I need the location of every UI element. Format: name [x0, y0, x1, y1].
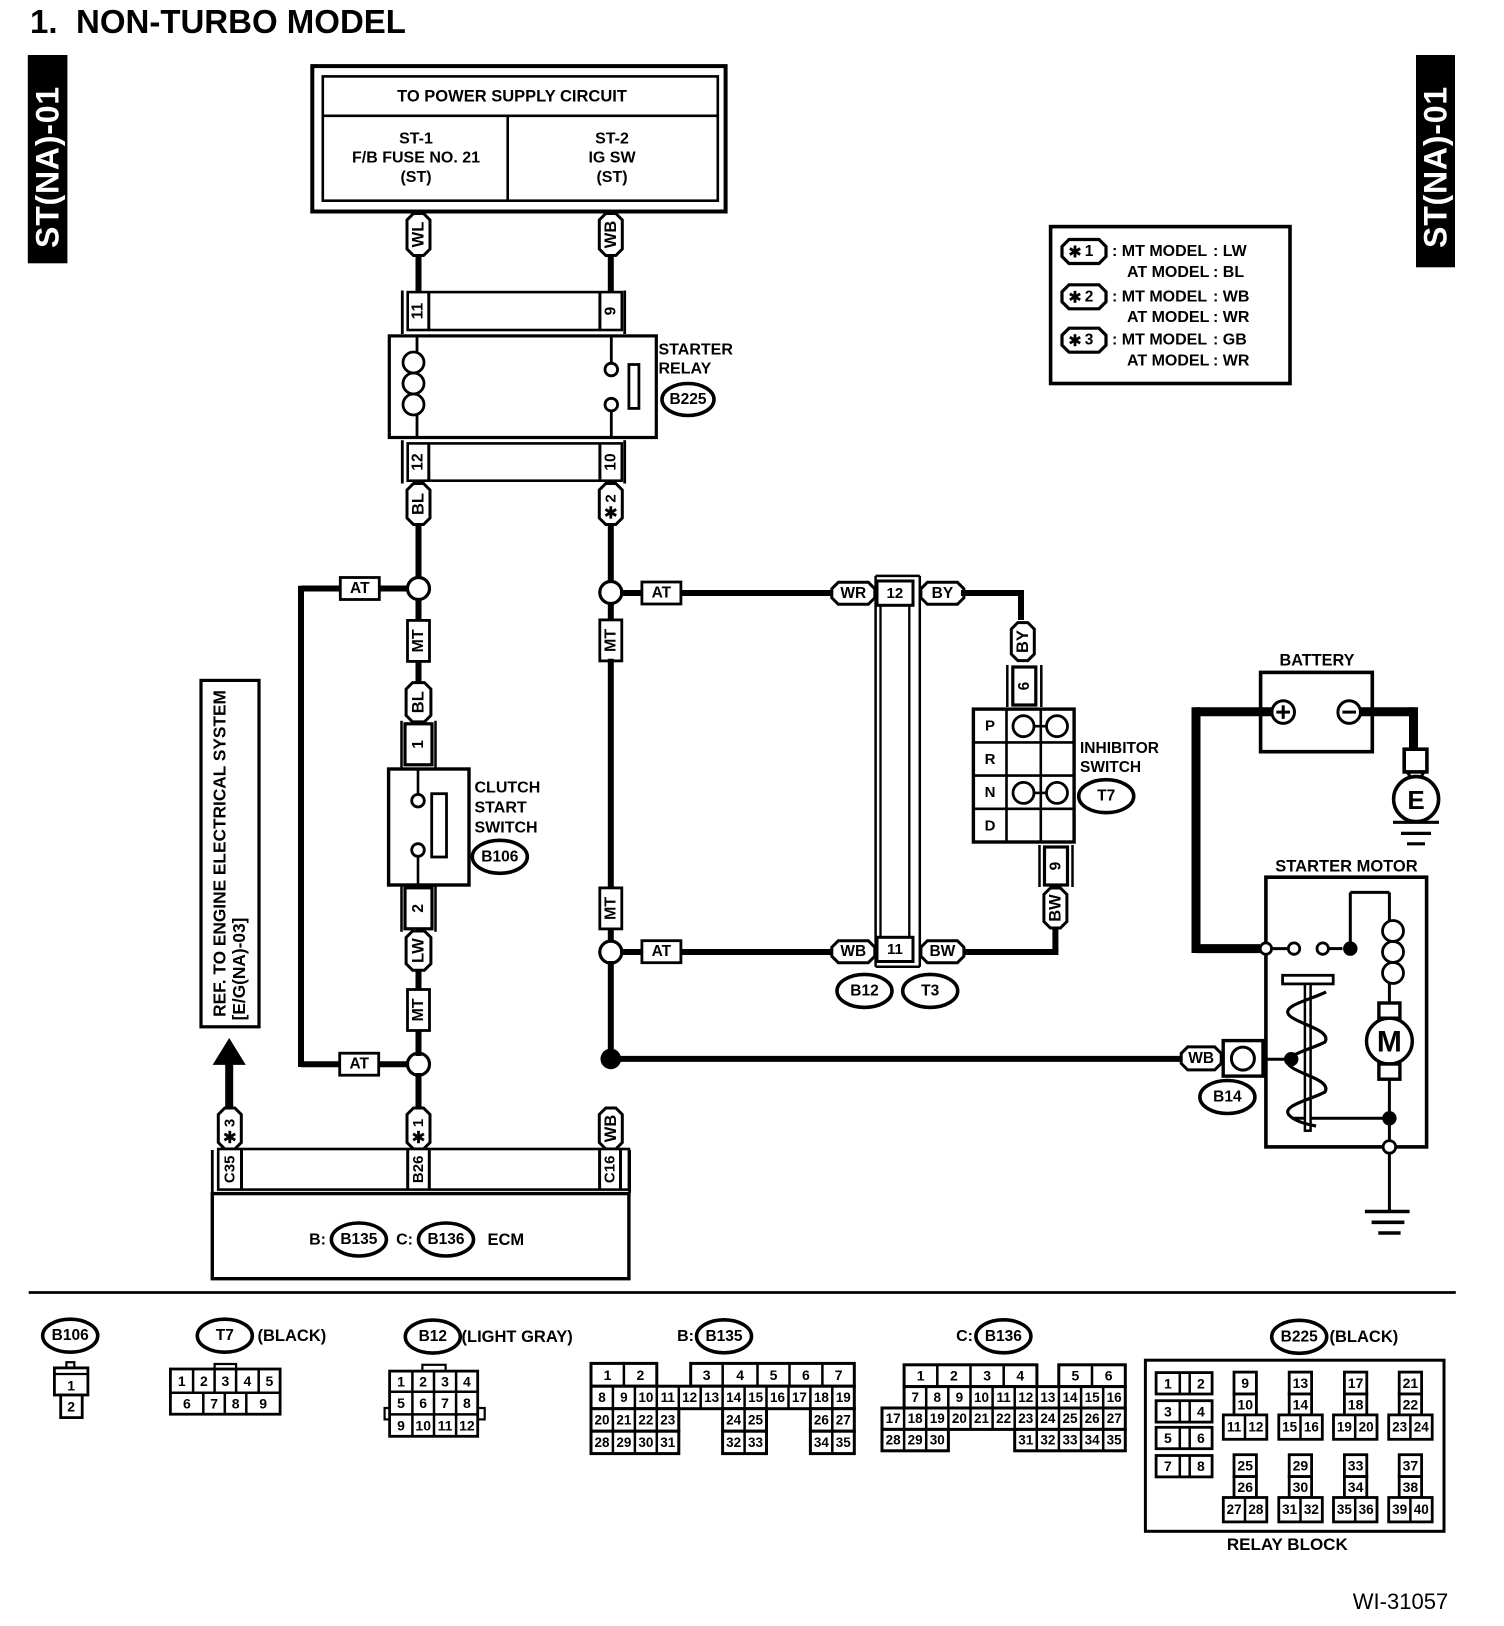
svg-text:TO POWER SUPPLY CIRCUIT: TO POWER SUPPLY CIRCUIT	[397, 88, 627, 106]
svg-text:7: 7	[1164, 1458, 1172, 1474]
svg-text:2: 2	[637, 1367, 645, 1383]
svg-text:11: 11	[438, 1417, 453, 1433]
svg-text:11: 11	[996, 1390, 1011, 1405]
svg-text:31: 31	[1018, 1433, 1034, 1448]
svg-text:18: 18	[814, 1390, 830, 1405]
svg-text:1: 1	[410, 1119, 427, 1127]
svg-text:AT: AT	[652, 585, 672, 602]
svg-text:8: 8	[1197, 1458, 1205, 1474]
wire junction B down	[608, 602, 614, 624]
svg-text:7: 7	[210, 1396, 218, 1412]
svg-text:34: 34	[1085, 1433, 1101, 1448]
svg-text:12: 12	[682, 1390, 697, 1405]
starter relay B225 box	[389, 336, 656, 438]
svg-text:5: 5	[397, 1395, 405, 1411]
section divider line	[29, 1291, 1456, 1294]
svg-text:7: 7	[441, 1395, 449, 1411]
svg-text:AT MODEL: AT MODEL	[1127, 264, 1210, 281]
svg-text:14: 14	[726, 1390, 742, 1405]
svg-text:: WR: : WR	[1213, 309, 1250, 326]
svg-text:26: 26	[814, 1413, 830, 1428]
case ground node (open)	[1383, 1141, 1396, 1154]
tag AT center-bottom	[642, 941, 681, 963]
svg-text:25: 25	[748, 1413, 764, 1428]
connector oval B225	[662, 384, 714, 416]
svg-text:32: 32	[1304, 1502, 1319, 1517]
svg-text:B136: B136	[427, 1231, 464, 1248]
inhibitor switch T7 box	[973, 709, 1074, 842]
svg-text:9: 9	[603, 306, 620, 315]
svg-text:SWITCH: SWITCH	[1080, 759, 1141, 776]
svg-text:N: N	[985, 784, 996, 801]
wire MT to junction D	[416, 1030, 422, 1056]
wire junction D to *1	[416, 1073, 422, 1110]
svg-text:B14: B14	[1213, 1089, 1242, 1106]
svg-text:8: 8	[934, 1390, 942, 1405]
svg-text:29: 29	[908, 1433, 923, 1448]
svg-text:AT: AT	[349, 1056, 369, 1073]
svg-text:WI-31057: WI-31057	[1353, 1589, 1448, 1614]
svg-text:[E/G(NA)-03]: [E/G(NA)-03]	[229, 918, 249, 1021]
svg-text:10: 10	[603, 453, 620, 470]
svg-text:2: 2	[67, 1399, 75, 1415]
label RELAY BLOCK	[1227, 1535, 1349, 1554]
svg-text:B:: B:	[677, 1328, 694, 1345]
svg-text:9: 9	[956, 1390, 964, 1405]
connector oval B225 (view)	[1272, 1320, 1327, 1353]
wire tag WL	[407, 214, 430, 256]
wire node E to WB tag	[608, 1110, 614, 1149]
svg-text:27: 27	[1107, 1411, 1122, 1426]
svg-text:2: 2	[1197, 1375, 1205, 1391]
battery + terminal	[1272, 701, 1295, 724]
svg-text:: LW: : LW	[1213, 243, 1248, 260]
wire junction A down	[416, 598, 422, 622]
wire tag BY (vertical)	[1011, 623, 1034, 661]
svg-text:17: 17	[792, 1390, 807, 1405]
plunger spring	[1288, 992, 1326, 1126]
svg-text:9: 9	[259, 1396, 267, 1412]
svg-text:13: 13	[1293, 1375, 1309, 1391]
connector oval B106 (view)	[43, 1319, 98, 1352]
svg-text:ST(NA)-01: ST(NA)-01	[1418, 86, 1454, 248]
svg-text:39: 39	[1392, 1502, 1407, 1517]
connector oval T3	[903, 974, 958, 1007]
svg-text:20: 20	[1359, 1420, 1374, 1435]
field coil	[1383, 921, 1404, 1004]
svg-text:15: 15	[1085, 1390, 1101, 1405]
svg-text:4: 4	[1016, 1368, 1024, 1384]
wire junction C to WB tag	[620, 949, 833, 955]
svg-text:(BLACK): (BLACK)	[258, 1327, 327, 1345]
connector oval B12 (view)	[405, 1320, 460, 1353]
svg-text:1: 1	[178, 1373, 186, 1389]
connector view B136 grid	[882, 1365, 1125, 1451]
svg-text:25: 25	[1237, 1458, 1253, 1474]
svg-text:WB: WB	[602, 221, 620, 249]
tag MT left upper	[408, 620, 430, 661]
svg-text:37: 37	[1403, 1458, 1419, 1474]
svg-text:30: 30	[638, 1435, 653, 1450]
svg-text:STARTER: STARTER	[659, 342, 734, 359]
svg-text:START: START	[475, 800, 527, 817]
svg-text:BL: BL	[410, 691, 428, 713]
node H (solid, WB feed)	[1284, 1052, 1298, 1066]
label ECM	[488, 1231, 525, 1249]
svg-text:B135: B135	[340, 1231, 377, 1248]
svg-text:MT: MT	[602, 897, 619, 920]
svg-text:6: 6	[183, 1396, 191, 1412]
svg-text:C35: C35	[221, 1156, 238, 1184]
svg-text:1: 1	[410, 740, 427, 749]
svg-text:B136: B136	[985, 1328, 1022, 1345]
svg-text:(BLACK): (BLACK)	[1330, 1328, 1399, 1346]
svg-text:SWITCH: SWITCH	[475, 820, 538, 837]
svg-text:6: 6	[1016, 681, 1033, 690]
svg-text:38: 38	[1403, 1479, 1419, 1495]
svg-text:6: 6	[419, 1395, 427, 1411]
wire tag BW (horizontal)	[921, 941, 964, 963]
svg-text:D: D	[985, 818, 996, 835]
svg-text:15: 15	[748, 1390, 764, 1405]
wire node G left	[1292, 1117, 1389, 1120]
svg-text:3: 3	[703, 1367, 711, 1383]
svg-text:19: 19	[836, 1390, 851, 1405]
svg-text:30: 30	[930, 1433, 945, 1448]
svg-text:B225: B225	[1281, 1328, 1318, 1345]
svg-text:AT MODEL: AT MODEL	[1127, 309, 1210, 326]
svg-text:B26: B26	[410, 1156, 427, 1184]
svg-text:WL: WL	[410, 222, 428, 248]
svg-text:3: 3	[221, 1119, 238, 1127]
svg-text:24: 24	[1040, 1411, 1056, 1426]
label BATTERY	[1279, 652, 1354, 670]
svg-text:19: 19	[930, 1411, 945, 1426]
label STARTER MOTOR	[1275, 858, 1417, 876]
svg-text:21: 21	[1403, 1375, 1419, 1391]
svg-text:: GB: : GB	[1213, 332, 1247, 349]
relay contacts	[605, 336, 618, 438]
wire into node H	[1263, 1058, 1291, 1061]
wire BW down and left	[961, 928, 1058, 952]
connector strip B12/T3 with pins 12 and 11	[876, 576, 920, 967]
pin 1 of B106	[402, 721, 436, 768]
battery - terminal	[1338, 701, 1361, 724]
wire tag WB (starter)	[1181, 1047, 1221, 1070]
svg-text:9: 9	[397, 1417, 405, 1433]
starter motor box	[1266, 877, 1427, 1147]
wire tag WB (horizontal)	[832, 941, 875, 963]
svg-text:23: 23	[1018, 1411, 1034, 1426]
wire node F to field coil	[1350, 892, 1389, 948]
svg-text:9: 9	[1241, 1375, 1249, 1391]
svg-text:9: 9	[620, 1390, 628, 1405]
svg-text:MT: MT	[410, 998, 427, 1021]
label B: and oval B135 (view)	[677, 1320, 751, 1353]
pin 9 of T7	[1040, 845, 1073, 887]
svg-text:16: 16	[1107, 1390, 1123, 1405]
svg-text:36: 36	[1359, 1502, 1375, 1517]
svg-text:MT: MT	[602, 629, 619, 652]
junction B (open)	[600, 582, 622, 604]
svg-text:3: 3	[222, 1373, 230, 1389]
svg-text:35: 35	[1107, 1433, 1123, 1448]
svg-text:1.: 1.	[30, 3, 58, 40]
connector oval T7	[1079, 780, 1134, 813]
node G (solid)	[1382, 1111, 1396, 1125]
wire MT to junction C	[608, 929, 614, 944]
svg-text:B:: B:	[309, 1232, 326, 1249]
svg-text:8: 8	[232, 1396, 240, 1412]
svg-text:6: 6	[1105, 1368, 1113, 1384]
connector oval B14	[1200, 1081, 1255, 1114]
wire junction B to WR	[620, 590, 833, 596]
svg-text:10: 10	[974, 1390, 989, 1405]
svg-text:1: 1	[917, 1368, 925, 1384]
svg-text:2: 2	[602, 494, 619, 502]
svg-text:18: 18	[1348, 1396, 1364, 1412]
svg-text:ST-2: ST-2	[595, 131, 629, 148]
svg-text:T7: T7	[216, 1327, 234, 1344]
svg-text:BY: BY	[932, 585, 954, 602]
svg-text:WB: WB	[840, 943, 866, 960]
svg-text:B106: B106	[481, 848, 518, 865]
svg-text:17: 17	[1348, 1375, 1364, 1391]
clutch start switch B106 box	[389, 769, 469, 885]
svg-text:34: 34	[1348, 1479, 1364, 1495]
svg-text:12: 12	[887, 585, 904, 602]
svg-text:11: 11	[410, 302, 427, 319]
pin 2 of B106	[402, 885, 436, 932]
svg-text:T3: T3	[921, 982, 939, 999]
motor M	[1367, 1003, 1413, 1079]
svg-text:RELAY BLOCK: RELAY BLOCK	[1227, 1535, 1349, 1554]
svg-text:RELAY: RELAY	[659, 361, 712, 378]
svg-text:3: 3	[1164, 1403, 1172, 1419]
power supply circuit box (ST-1 / ST-2)	[312, 66, 725, 211]
svg-text:R: R	[985, 751, 996, 768]
wire tag BY (horizontal)	[921, 582, 964, 604]
svg-text:CLUTCH: CLUTCH	[475, 780, 541, 797]
svg-text:NON-TURBO MODEL: NON-TURBO MODEL	[76, 3, 406, 40]
svg-text:F/B FUSE NO. 21: F/B FUSE NO. 21	[352, 150, 480, 167]
svg-text:3: 3	[983, 1368, 991, 1384]
svg-text:14: 14	[1293, 1396, 1309, 1412]
connector oval B136 (ECM)	[419, 1223, 474, 1256]
svg-text:2: 2	[419, 1374, 427, 1390]
wire tag BW (vertical)	[1044, 888, 1067, 928]
svg-text:22: 22	[1403, 1396, 1419, 1412]
relay armature bar	[629, 365, 639, 409]
svg-text:22: 22	[638, 1413, 653, 1428]
svg-text:12: 12	[410, 453, 427, 470]
svg-text:31: 31	[1282, 1502, 1298, 1517]
svg-text:5: 5	[266, 1373, 274, 1389]
svg-text:12: 12	[459, 1417, 475, 1433]
svg-text:WB: WB	[1188, 1050, 1214, 1067]
wire WL from power box	[416, 254, 422, 292]
solenoid plunger	[1283, 975, 1334, 1130]
svg-text:(ST): (ST)	[596, 169, 627, 186]
wire WB from power box	[608, 254, 614, 292]
svg-text:16: 16	[770, 1390, 786, 1405]
svg-text:30: 30	[1293, 1479, 1309, 1495]
svg-text:4: 4	[736, 1367, 744, 1383]
svg-text:BW: BW	[929, 943, 955, 960]
long wire node E to starter	[619, 1056, 1183, 1062]
svg-text:23: 23	[660, 1413, 676, 1428]
svg-text:ST-1: ST-1	[399, 131, 433, 148]
tag MT center lower	[600, 888, 622, 929]
svg-text:B225: B225	[669, 391, 706, 408]
svg-text:REF. TO ENGINE ELECTRICAL SYST: REF. TO ENGINE ELECTRICAL SYSTEM	[210, 690, 230, 1017]
svg-text:2: 2	[200, 1373, 208, 1389]
relay connector bar pins 11 and 9	[402, 291, 624, 335]
svg-text:1: 1	[67, 1378, 75, 1394]
svg-text:7: 7	[835, 1367, 843, 1383]
svg-text:AT: AT	[350, 580, 370, 597]
svg-text:(LIGHT GRAY): (LIGHT GRAY)	[462, 1328, 573, 1346]
svg-text:1: 1	[1085, 243, 1094, 260]
svg-text:27: 27	[836, 1413, 851, 1428]
svg-text:1: 1	[604, 1367, 612, 1383]
svg-text:(ST): (ST)	[400, 169, 431, 186]
legend box	[1051, 227, 1290, 384]
connector view B225 relay block	[1145, 1360, 1444, 1531]
label CLUTCH START SWITCH	[475, 780, 541, 837]
svg-text:21: 21	[974, 1411, 990, 1426]
svg-text:: WR: : WR	[1213, 353, 1250, 370]
svg-text:12: 12	[1248, 1420, 1263, 1435]
svg-text:35: 35	[836, 1435, 852, 1450]
wire tag WB	[599, 214, 622, 256]
connector view T7 pins	[170, 1364, 280, 1414]
svg-text:3: 3	[1085, 332, 1094, 349]
svg-text:32: 32	[726, 1435, 741, 1450]
wire LW to MT	[416, 971, 422, 992]
drawing number WI-31057	[1353, 1589, 1448, 1614]
pin 6 of T7	[1007, 665, 1041, 707]
svg-text:BATTERY: BATTERY	[1279, 652, 1354, 670]
node F (solid)	[1343, 941, 1357, 955]
svg-text:24: 24	[1414, 1420, 1430, 1435]
svg-text:33: 33	[1348, 1458, 1364, 1474]
svg-text:5: 5	[770, 1367, 778, 1383]
legend entries *1 *2 *3	[1062, 240, 1250, 370]
starter contacts	[1260, 943, 1342, 954]
connector B14 symbol	[1223, 1041, 1263, 1077]
svg-text:28: 28	[594, 1435, 610, 1450]
right page banner ST(NA)-01	[1416, 55, 1455, 267]
svg-text:C:: C:	[956, 1328, 973, 1345]
wire M down	[1388, 1079, 1391, 1112]
svg-text:27: 27	[1227, 1502, 1242, 1517]
svg-text:16: 16	[1304, 1420, 1320, 1435]
svg-text:29: 29	[616, 1435, 631, 1450]
junction A (open)	[408, 578, 430, 600]
svg-text:13: 13	[1040, 1390, 1056, 1405]
svg-text:2: 2	[1085, 288, 1094, 305]
ground E	[1393, 772, 1439, 844]
svg-text:LW: LW	[410, 938, 428, 963]
svg-text:: MT MODEL: : MT MODEL	[1112, 288, 1207, 305]
connector oval B106	[472, 840, 527, 873]
connector oval T7 (view)	[197, 1319, 252, 1352]
battery - cable	[1360, 707, 1413, 749]
svg-text:29: 29	[1293, 1458, 1309, 1474]
wire MT to BL	[416, 662, 422, 685]
svg-text:26: 26	[1085, 1411, 1101, 1426]
wire tag WR	[832, 582, 875, 604]
svg-text:T7: T7	[1097, 788, 1115, 805]
svg-text:4: 4	[244, 1373, 252, 1389]
svg-text:25: 25	[1062, 1411, 1078, 1426]
svg-text:4: 4	[463, 1374, 471, 1390]
wire node G down	[1388, 1125, 1391, 1141]
svg-text:C16: C16	[602, 1156, 619, 1184]
label (BLACK) for T7	[258, 1327, 327, 1345]
svg-text:2: 2	[410, 904, 427, 913]
svg-text:: BL: : BL	[1213, 264, 1244, 281]
tag MT left lower	[408, 990, 430, 1031]
svg-text:12: 12	[1018, 1390, 1033, 1405]
svg-text:33: 33	[748, 1435, 764, 1450]
junction D (open)	[408, 1053, 430, 1075]
svg-text:ECM: ECM	[488, 1231, 525, 1249]
svg-text:18: 18	[908, 1411, 924, 1426]
svg-text:AT MODEL: AT MODEL	[1127, 353, 1210, 370]
junction C (open)	[600, 941, 622, 963]
svg-text:1: 1	[397, 1374, 405, 1390]
svg-text:BY: BY	[1014, 630, 1032, 653]
tag AT bottom-left	[340, 1053, 379, 1075]
svg-text:IG SW: IG SW	[588, 150, 636, 167]
wire tag *1	[407, 1108, 430, 1149]
ECM box	[212, 1194, 629, 1279]
battery + cable	[1196, 707, 1272, 953]
wire tag LW	[406, 931, 431, 970]
wire tag *2	[599, 484, 622, 525]
svg-text:P: P	[985, 718, 995, 735]
svg-text:20: 20	[952, 1411, 967, 1426]
wire BL to junction A	[416, 525, 422, 581]
relay coil	[403, 336, 424, 438]
wire center long	[608, 659, 614, 890]
node E (solid junction)	[601, 1049, 622, 1070]
svg-text:11: 11	[1227, 1420, 1242, 1435]
arrow to engine electrical system	[213, 1038, 246, 1108]
svg-text:7: 7	[911, 1390, 919, 1405]
svg-text:2: 2	[950, 1368, 958, 1384]
svg-text:: WB: : WB	[1213, 288, 1249, 305]
svg-text:B12: B12	[419, 1328, 447, 1345]
wire *2 to junction B	[608, 525, 614, 585]
wire BY to inhibitor corner	[961, 590, 1024, 620]
svg-text:34: 34	[814, 1435, 830, 1450]
svg-text:24: 24	[726, 1413, 742, 1428]
svg-text:: MT MODEL: : MT MODEL	[1112, 332, 1207, 349]
relay connector bar pins 12 and 10	[402, 440, 624, 483]
battery box	[1261, 672, 1373, 751]
svg-text:11: 11	[887, 941, 903, 958]
svg-text:22: 22	[996, 1411, 1011, 1426]
svg-text:B12: B12	[850, 982, 878, 999]
svg-text:9: 9	[1048, 861, 1065, 870]
svg-text:C:: C:	[396, 1232, 413, 1249]
svg-text:33: 33	[1062, 1433, 1078, 1448]
label (BLACK) for B225	[1330, 1328, 1399, 1346]
svg-text:14: 14	[1062, 1390, 1078, 1405]
